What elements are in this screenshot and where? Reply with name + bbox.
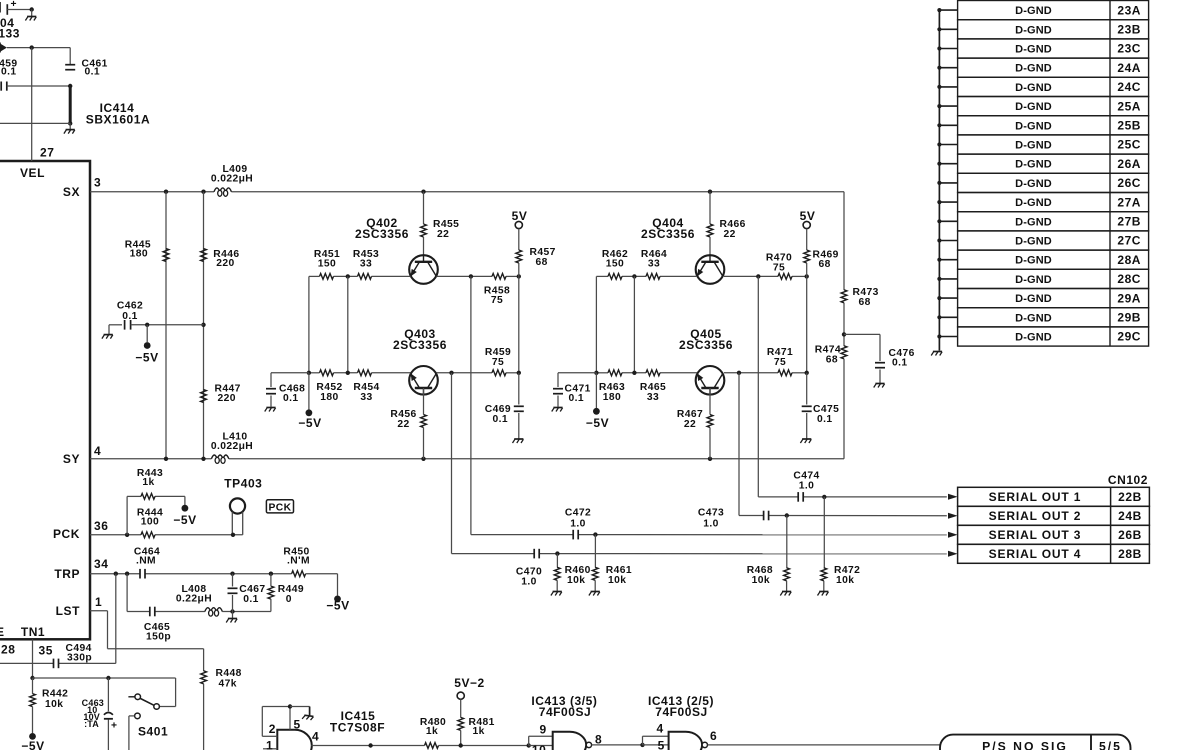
svg-text:1k: 1k (142, 477, 154, 488)
svg-text:TC7S08F: TC7S08F (330, 721, 385, 735)
node (737, 371, 741, 375)
svg-text:0.1: 0.1 (283, 393, 299, 404)
svg-text:100: 100 (141, 516, 159, 527)
svg-text:D-GND: D-GND (1015, 255, 1052, 267)
capacitor C473 (763, 511, 765, 521)
resistor R442 (30, 694, 36, 707)
svg-text:29B: 29B (1117, 311, 1141, 325)
svg-text:D-GND: D-GND (1015, 293, 1052, 305)
IC block (left, partially cut) (0, 161, 90, 639)
svg-text:0: 0 (286, 594, 292, 605)
svg-text:4: 4 (657, 722, 664, 736)
node (346, 371, 350, 375)
svg-text:D-GND: D-GND (1015, 82, 1052, 94)
wire R443 loop (126, 496, 128, 534)
svg-text:22: 22 (397, 419, 409, 430)
inductor L410 (211, 455, 228, 459)
ground (232, 612, 234, 619)
svg-text:68: 68 (819, 259, 831, 270)
svg-text:27: 27 (40, 146, 54, 160)
svg-text:26B: 26B (1118, 528, 1142, 542)
svg-text:5V−2: 5V−2 (454, 676, 485, 690)
svg-text:4: 4 (94, 444, 101, 458)
svg-text:1k: 1k (473, 726, 485, 737)
node (269, 572, 273, 576)
node (517, 371, 521, 375)
wire to P/S NO SIG (708, 744, 941, 746)
resistor R466 (707, 224, 713, 237)
svg-text:R442: R442 (42, 688, 68, 699)
wire (594, 580, 596, 591)
svg-text:35: 35 (39, 644, 53, 658)
node (201, 190, 205, 194)
node (201, 323, 205, 327)
transistor Q404 2SC3356 (696, 255, 725, 284)
svg-text:180: 180 (130, 249, 148, 260)
svg-text:−5V: −5V (21, 739, 44, 750)
wire (592, 744, 643, 746)
wire (806, 229, 808, 250)
arrow into SERIAL OUT 3 (948, 532, 958, 538)
svg-text:VEL: VEL (20, 166, 45, 180)
capacitor C409 fragment (cut at edge) (6, 4, 8, 15)
wire R461 branch (594, 535, 596, 568)
resistor R467 (707, 415, 713, 428)
wire (32, 678, 34, 694)
wire (0, 122, 70, 124)
wire (843, 303, 845, 346)
node (288, 704, 292, 708)
inductor L408 (205, 608, 222, 612)
svg-text:24C: 24C (1117, 80, 1141, 94)
resistor R456 (421, 415, 427, 428)
resistor R447 (201, 390, 207, 403)
svg-text:2SC3356: 2SC3356 (393, 338, 447, 352)
power -5V (144, 342, 151, 349)
svg-text:74F00SJ: 74F00SJ (539, 705, 592, 719)
resistor R448 (201, 671, 207, 684)
capacitor C474 (797, 492, 799, 502)
svg-text:1.0: 1.0 (799, 481, 815, 492)
svg-text:C462: C462 (117, 300, 143, 311)
power -5V (334, 596, 341, 603)
ground (265, 408, 276, 412)
node (145, 323, 149, 327)
capacitor C494 (53, 659, 55, 669)
net label PCK box (266, 500, 293, 513)
svg-text:0.22μH: 0.22μH (176, 593, 212, 604)
node (201, 457, 205, 461)
wire SY bus (90, 458, 211, 460)
svg-text:5V: 5V (512, 209, 528, 223)
svg-text:23A: 23A (1117, 3, 1141, 17)
D-GND stub wires and bus (939, 9, 957, 11)
wire IC415 pin2 (262, 735, 277, 737)
svg-text:22: 22 (724, 229, 736, 240)
node (708, 190, 712, 194)
svg-text:150p: 150p (146, 632, 171, 643)
svg-text:74F00SJ: 74F00SJ (655, 705, 708, 719)
capacitor C469 (514, 405, 524, 407)
wire (308, 373, 310, 410)
resistor R446 (201, 249, 207, 262)
resistor R450 (292, 571, 306, 577)
svg-text:PCK: PCK (269, 502, 292, 513)
capacitor C471 (553, 388, 563, 390)
ground (290, 706, 310, 708)
svg-text:22: 22 (684, 419, 696, 430)
node top-left junction (30, 7, 34, 11)
node (594, 371, 598, 375)
svg-text:SBX1601A: SBX1601A (86, 113, 150, 127)
svg-text:75: 75 (774, 357, 786, 368)
wire serial out 4 (451, 373, 453, 554)
resistor R469 (804, 250, 810, 263)
wire IC415 pin5 loop (261, 707, 263, 737)
svg-text:27B: 27B (1117, 215, 1141, 229)
node (527, 743, 531, 747)
wire (69, 48, 71, 65)
svg-text:0.1: 0.1 (892, 358, 908, 369)
node (30, 676, 34, 680)
power 5V (515, 221, 522, 228)
wire pin4 branch (642, 736, 644, 745)
node (368, 743, 372, 747)
wire Q404 base (660, 275, 697, 277)
svg-text:1.0: 1.0 (570, 518, 586, 529)
node C461 bottom (68, 84, 72, 88)
svg-text:75: 75 (491, 295, 503, 306)
wire pin9 branch (528, 736, 530, 745)
svg-text:0.1: 0.1 (243, 594, 259, 605)
node (805, 371, 809, 375)
node (421, 457, 425, 461)
node (640, 743, 644, 747)
wire serial out 2 (738, 373, 740, 516)
wire Q403 emitter (372, 372, 411, 374)
node (785, 513, 789, 517)
svg-text:22B: 22B (1118, 490, 1142, 504)
node (593, 532, 597, 536)
svg-text:SX: SX (63, 185, 80, 199)
wire C471 branch (558, 372, 596, 374)
svg-text:2SC3356: 2SC3356 (355, 227, 409, 241)
wire (460, 699, 462, 717)
wire (146, 325, 148, 342)
resistor R459 (492, 370, 506, 376)
capacitor C476 (875, 362, 885, 364)
svg-text:S133: S133 (0, 26, 20, 40)
wire (203, 684, 205, 750)
svg-text:5: 5 (294, 718, 301, 732)
svg-text:0.1: 0.1 (817, 414, 833, 425)
wire (131, 324, 204, 326)
wire (879, 370, 881, 384)
wire PCK (90, 534, 141, 536)
resistor R464 (646, 274, 660, 280)
svg-text:10k: 10k (836, 575, 854, 586)
svg-text:47k: 47k (219, 679, 237, 690)
wire bold segment (69, 86, 72, 123)
wire left vertical (595, 276, 597, 372)
svg-text:D-GND: D-GND (1015, 120, 1052, 132)
wire (595, 373, 597, 408)
svg-text:SY: SY (63, 452, 80, 466)
wire serial out 1 (757, 276, 759, 497)
arrow into SERIAL OUT 1 (948, 494, 958, 500)
svg-text:D-GND: D-GND (1015, 197, 1052, 209)
svg-text:25C: 25C (1117, 138, 1141, 152)
ground (818, 592, 829, 596)
wire Q405 collector (724, 372, 778, 374)
wire link (347, 276, 349, 372)
svg-text:28C: 28C (1117, 272, 1141, 286)
node (632, 274, 636, 278)
node (632, 371, 636, 375)
ground (D-GND bus) (931, 352, 942, 356)
wire (7, 85, 70, 87)
node (125, 533, 129, 537)
svg-text:68: 68 (826, 354, 838, 365)
svg-text:E: E (0, 625, 5, 639)
svg-text:22: 22 (437, 229, 449, 240)
node (125, 572, 129, 576)
svg-text:1.0: 1.0 (703, 518, 719, 529)
node (230, 572, 234, 576)
gate IC415 TC7S08F (277, 730, 312, 750)
transistor Q405 2SC3356 (696, 366, 725, 395)
wire LST (90, 610, 108, 612)
node (517, 274, 521, 278)
resistor R473 (841, 290, 847, 303)
wire pin5 (643, 744, 669, 746)
resistor R443 (141, 494, 155, 500)
wire (7, 9, 31, 11)
resistor R471 (778, 370, 792, 376)
wire (109, 324, 122, 326)
wire C468 branch (271, 372, 309, 374)
svg-text:34: 34 (94, 557, 108, 571)
capacitor C465 (149, 607, 151, 617)
svg-text:C473: C473 (698, 508, 724, 519)
svg-text:26A: 26A (1117, 157, 1141, 171)
wire (165, 192, 167, 459)
capacitor C475 (802, 405, 812, 407)
svg-text:24B: 24B (1118, 509, 1142, 523)
resistor R451 (320, 274, 334, 280)
svg-text:28A: 28A (1117, 253, 1141, 267)
svg-text:R448: R448 (216, 668, 242, 679)
arrow into SERIAL OUT 2 (948, 513, 958, 519)
svg-text:0.1: 0.1 (1, 67, 17, 78)
svg-text:0.1: 0.1 (569, 393, 585, 404)
wire (270, 396, 272, 407)
power -5V (306, 409, 313, 416)
svg-text:27C: 27C (1117, 234, 1141, 248)
ground (552, 408, 563, 412)
connector table D-GND rows 23A-29C (958, 1, 1149, 20)
svg-text:SERIAL OUT 1: SERIAL OUT 1 (989, 490, 1082, 504)
svg-text:1: 1 (95, 595, 102, 609)
transistor Q402 2SC3356 (409, 255, 438, 284)
capacitor C472 (572, 530, 574, 540)
resistor R455 (421, 224, 427, 237)
svg-text:D-GND: D-GND (1015, 63, 1052, 75)
svg-text:−5V: −5V (298, 416, 321, 430)
svg-text:330p: 330p (67, 653, 92, 664)
wire Q405 emitter (660, 372, 697, 374)
svg-text:3: 3 (94, 176, 101, 190)
svg-text:S401: S401 (138, 725, 168, 739)
wire (33, 677, 176, 679)
svg-text:0.022μH: 0.022μH (211, 173, 253, 184)
svg-text:CN102: CN102 (1108, 473, 1148, 487)
wire (709, 428, 711, 459)
svg-text:SERIAL OUT 3: SERIAL OUT 3 (989, 528, 1082, 542)
inductor L409 (214, 188, 231, 192)
svg-text:D-GND: D-GND (1015, 24, 1052, 36)
resistor R461 (592, 567, 598, 580)
svg-text:P/S NO SIG: P/S NO SIG (982, 740, 1068, 750)
resistor R457 (516, 250, 522, 263)
wire (203, 192, 205, 459)
ground (874, 384, 885, 388)
wire (518, 263, 520, 373)
svg-text:68: 68 (859, 297, 871, 308)
wire (423, 237, 425, 255)
wire C494 line (0, 662, 54, 664)
svg-text:5: 5 (658, 739, 665, 750)
wire Q403 collector (436, 372, 492, 374)
node diode junction (30, 45, 34, 49)
resistor R453 (358, 274, 372, 280)
svg-text:28: 28 (1, 643, 15, 657)
wire R466 stem (709, 192, 711, 224)
svg-text:LST: LST (56, 604, 80, 618)
svg-text:10k: 10k (752, 575, 770, 586)
resistor R468 (784, 568, 790, 581)
svg-text:2SC3356: 2SC3356 (679, 338, 733, 352)
svg-text:SERIAL OUT 4: SERIAL OUT 4 (989, 547, 1082, 561)
resistor R452 (320, 370, 334, 376)
svg-text:5/5: 5/5 (1099, 740, 1122, 750)
svg-text:D-GND: D-GND (1015, 140, 1052, 152)
capacitor C468 (266, 388, 276, 390)
ground (780, 592, 791, 596)
power -5V (29, 733, 36, 740)
ground (800, 439, 811, 443)
wire link (633, 276, 635, 372)
node (756, 274, 760, 278)
wire Q402 emitter (372, 275, 411, 277)
svg-text:29C: 29C (1117, 330, 1141, 344)
wire gate output (311, 745, 424, 747)
capacitor C459 (cut at edge) (0, 82, 2, 91)
power 5V-2 (457, 692, 464, 699)
node (164, 457, 168, 461)
wire SX bus (90, 191, 214, 193)
capacitor C461 (65, 64, 75, 66)
svg-text:D-GND: D-GND (1015, 216, 1052, 228)
wire (32, 707, 34, 733)
svg-text:1: 1 (266, 738, 273, 750)
svg-text:26C: 26C (1117, 176, 1141, 190)
ground (108, 325, 110, 334)
node (164, 190, 168, 194)
wire Q403 base stem (423, 388, 425, 415)
node (68, 121, 72, 125)
gate IC413 (3/5) 74F00SJ (553, 732, 587, 750)
node (805, 274, 809, 278)
svg-text:150: 150 (606, 258, 624, 269)
svg-text:−5V: −5V (173, 513, 196, 527)
wire left vertical (308, 276, 310, 372)
wire Q402 collector (436, 275, 492, 277)
connector table CN102 SERIAL OUT rows (958, 487, 1150, 506)
wire R468 branch (786, 516, 788, 569)
resistor R462 (608, 274, 622, 280)
svg-text:.NM: .NM (136, 555, 156, 566)
svg-text:D-GND: D-GND (1015, 236, 1052, 248)
svg-text:33: 33 (647, 392, 659, 403)
svg-text:29A: 29A (1117, 291, 1141, 305)
svg-text:68: 68 (536, 257, 548, 268)
wire (843, 192, 845, 290)
resistor R445 (163, 249, 169, 262)
svg-text:10k: 10k (567, 575, 585, 586)
wire (843, 359, 845, 459)
svg-text:25A: 25A (1117, 99, 1141, 113)
resistor R454 (358, 370, 372, 376)
ground (551, 592, 562, 596)
svg-text::TA: :TA (84, 719, 99, 729)
svg-text:−5V: −5V (326, 598, 349, 612)
svg-text:2: 2 (269, 722, 276, 736)
wire pin27 vertical (31, 48, 33, 161)
node (230, 609, 234, 613)
node (449, 371, 453, 375)
resistor R449 (268, 586, 274, 599)
svg-text:10: 10 (532, 743, 546, 750)
wire R472 branch (823, 497, 825, 568)
svg-text:+: + (11, 0, 17, 10)
gate IC413 (2/5) 74F00SJ (669, 732, 703, 750)
svg-text:23C: 23C (1117, 42, 1141, 56)
ground (589, 592, 600, 596)
wire (823, 581, 825, 591)
wire (806, 373, 808, 405)
switch S401 (135, 694, 141, 700)
node (307, 371, 311, 375)
svg-text:PCK: PCK (53, 527, 80, 541)
svg-text:SERIAL OUT 2: SERIAL OUT 2 (989, 509, 1082, 523)
wire (7, 47, 70, 49)
wire (129, 715, 135, 717)
capacitor C462 (124, 320, 126, 330)
wire (806, 263, 808, 373)
node (555, 551, 559, 555)
node (842, 332, 846, 336)
svg-text:1k: 1k (426, 726, 438, 737)
wire IC415 pin1 stub (263, 748, 277, 750)
ground (69, 123, 71, 129)
wire (556, 580, 558, 591)
wire (709, 237, 711, 255)
svg-text:D-GND: D-GND (1015, 332, 1052, 344)
svg-text:D-GND: D-GND (1015, 44, 1052, 56)
wire (423, 428, 425, 459)
svg-text:C472: C472 (565, 508, 591, 519)
